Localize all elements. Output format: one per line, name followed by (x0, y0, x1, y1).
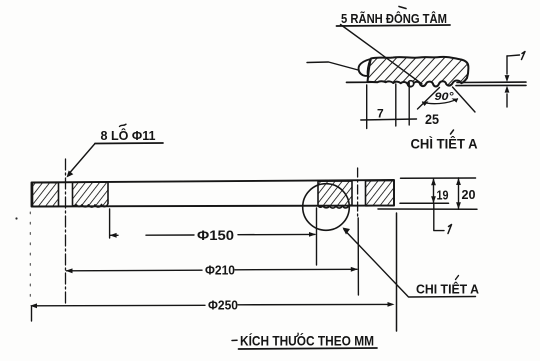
dim phi250: left extension (dotted) (29, 212, 31, 302)
depth dim: top tail to label (507, 55, 520, 56)
leader line 1 from label to groove (341, 25, 423, 85)
svg-text:KÍCH THUÓC THEO MM: KÍCH THUÓC THEO MM (240, 334, 374, 349)
paper speck (15, 217, 17, 219)
svg-text:Φ250: Φ250 (208, 298, 238, 313)
90 degree V: left leg (418, 88, 440, 110)
acute on E of TIET (451, 130, 454, 134)
right bolt hole centerline (dash-dot upper) (357, 168, 359, 218)
hatched block far-right (366, 181, 395, 206)
right side: bottom extension line (20) (378, 208, 477, 210)
dim phi250: right extension (396, 213, 398, 331)
grave accent on O of DONG (399, 7, 406, 9)
dim 7: extension line 3 (408, 83, 410, 126)
hatched block right-inner with grooves (318, 181, 352, 208)
svg-text:5 RÃNH ĐÔNG TÂM: 5 RÃNH ĐÔNG TÂM (341, 11, 447, 26)
text 1 (448, 225, 452, 234)
label underline (337, 25, 451, 26)
label leader with arrow (70, 144, 95, 173)
dim phi150: right extension (316, 208, 318, 265)
groove depth leader "1" (L shape) (434, 203, 444, 230)
bottom note: KICH THUOC THEO MM (232, 339, 237, 341)
dim 20 vertical with arrows (458, 178, 460, 209)
right side: mid extension line (19) (400, 202, 449, 204)
svg-text:CHÌ TIÊT A: CHÌ TIÊT A (411, 135, 478, 152)
detail callout circle (303, 184, 350, 231)
dim 7: extension line 1 (366, 85, 368, 129)
dim phi150: left extension (109, 209, 111, 238)
90 degree V: right leg (453, 87, 476, 112)
depth dim: lower face line (456, 84, 526, 86)
depth dim: vertical with arrows (506, 56, 508, 74)
hatched block far-left (33, 182, 59, 206)
right bolt hole centerline extension (solid lower) (357, 218, 359, 295)
dim 7: dimension line (361, 119, 417, 120)
dim phi250: dimension line (32, 304, 205, 307)
label underline (95, 142, 163, 145)
dim phi150: dimension line with gap for text (110, 234, 118, 236)
svg-text:Φ150: Φ150 (197, 228, 234, 243)
left bolt hole centerline (dash-dot) (65, 159, 67, 303)
note underline (239, 348, 378, 349)
small groove circle bump (408, 81, 414, 87)
hatched block left-inner with grooves (73, 182, 109, 207)
flange outline (32, 180, 395, 207)
depth dim: upper face line (457, 81, 526, 83)
right side: top extension line (20) (401, 177, 476, 179)
svg-text:20: 20 (462, 187, 476, 202)
arc arrowheads (422, 101, 429, 106)
dim 19 vertical with arrows (433, 178, 435, 203)
svg-text:25: 25 (425, 111, 439, 127)
face line extending left under lobe (347, 81, 378, 83)
dim phi210: dimension line (67, 269, 203, 272)
text 1 (groove depth) (522, 52, 526, 60)
svg-text:CHI TIÊT A: CHI TIÊT A (416, 282, 479, 297)
unhatched left lobe of blob (359, 59, 371, 76)
svg-text:Φ210: Φ210 (205, 263, 235, 278)
leader from circle to CHI TIET A (344, 230, 476, 298)
svg-text:7: 7 (377, 107, 384, 121)
dim 7: extension line 2 (395, 84, 397, 126)
svg-text:19: 19 (437, 189, 449, 203)
detail section blob (hatched) (368, 57, 469, 87)
svg-text:8 LÔ Φ11: 8 LÔ Φ11 (101, 128, 156, 143)
svg-text:90°: 90° (435, 91, 455, 103)
tilde on O of LO (120, 124, 127, 126)
acute on E (456, 276, 459, 280)
leader line 2 (left tail) (307, 62, 360, 71)
angle arc (423, 99, 458, 104)
horn mark on U of THUOC (296, 333, 298, 336)
